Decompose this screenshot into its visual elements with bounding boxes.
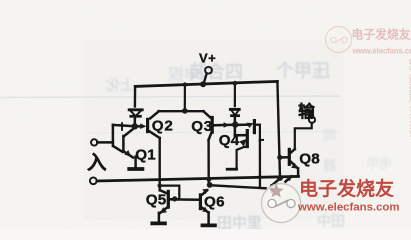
svg-text:电子发烧友: 电子发烧友	[299, 177, 394, 200]
svg-text:压甲个: 压甲个	[275, 60, 330, 81]
svg-text:Q3: Q3	[191, 118, 213, 135]
svg-text:电子发烧友 www.el: 电子发烧友 www.el	[407, 55, 411, 138]
svg-text:入: 入	[87, 152, 107, 174]
svg-text:输: 输	[298, 101, 315, 121]
svg-text:器: 器	[322, 158, 337, 173]
svg-text:电申: 电申	[366, 156, 392, 171]
svg-text:田中: 田中	[317, 213, 345, 229]
svg-text:Q8: Q8	[299, 150, 320, 167]
svg-text:里中田: 里中田	[217, 214, 262, 229]
svg-text:上化: 上化	[106, 77, 134, 93]
svg-text:同: 同	[323, 128, 336, 143]
svg-text:Q5: Q5	[146, 191, 167, 208]
svg-text:www.elecfans.com: www.elecfans.com	[297, 202, 400, 214]
svg-text:Q4: Q4	[219, 132, 240, 149]
svg-text:电子发烧友: 电子发烧友	[352, 28, 411, 42]
svg-text:V+: V+	[199, 51, 216, 66]
svg-text:Q1: Q1	[135, 146, 156, 163]
svg-text:申探: 申探	[168, 65, 200, 84]
svg-text:Q2: Q2	[152, 117, 174, 134]
svg-text:www.elecfans.cn: www.elecfans.cn	[352, 47, 411, 56]
svg-text:Q6: Q6	[204, 193, 225, 210]
